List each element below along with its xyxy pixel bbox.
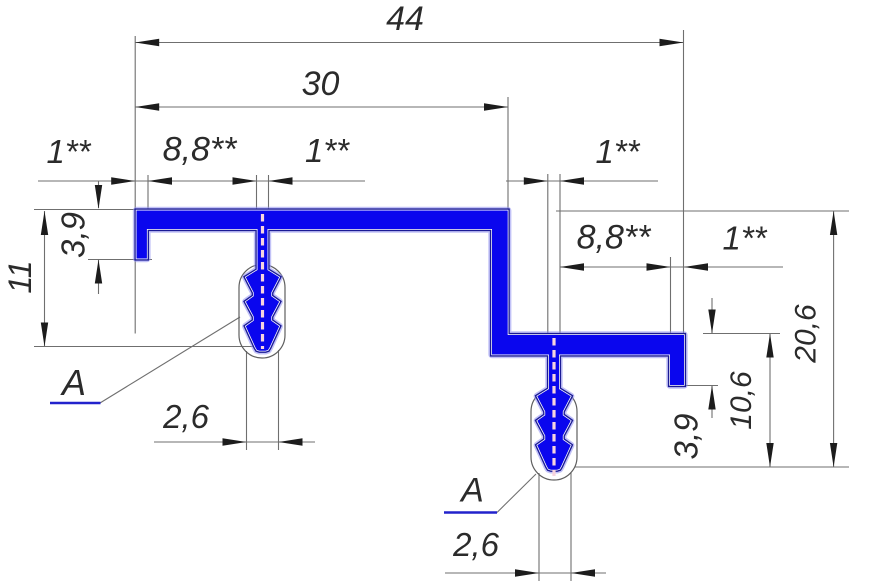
arrow 10,6 bottom <box>766 443 773 467</box>
wire: ext line x=508 for dim 30 <box>507 97 509 209</box>
arrow 8,8R left <box>560 263 584 270</box>
wire: ext lines under fir slot 1 (dim 2,6) <box>246 351 248 450</box>
arrow 2,6L a <box>223 438 247 445</box>
svg-text:2,6: 2,6 <box>452 526 500 563</box>
svg-text:10,6: 10,6 <box>725 371 758 430</box>
wire: right leg bottom ext line <box>685 385 718 387</box>
arrow 1 top-right a <box>524 177 548 184</box>
arrow 30 right <box>484 103 508 110</box>
arrow 3,9L bottom <box>95 260 102 284</box>
wire: ext lines stem1 edges <box>256 175 258 209</box>
arrow 20,6 top <box>830 211 837 235</box>
arrow 11 top <box>41 211 48 235</box>
arrow 1 top-right b <box>560 177 584 184</box>
svg-text:1**: 1** <box>305 132 350 169</box>
wire: ext line x=135 (left leg, dims 44/30/1) <box>134 36 136 209</box>
svg-text:1**: 1** <box>595 133 640 170</box>
arrow 44 left <box>135 39 159 46</box>
node slot outline 1 <box>239 265 285 359</box>
wire: lower bar top ext line right <box>703 333 780 335</box>
wire: bottom ext line of 11 <box>34 346 267 348</box>
svg-text:1**: 1** <box>46 133 91 170</box>
svg-text:3,9: 3,9 <box>668 414 705 460</box>
arrow 3,9R bottom <box>708 386 715 410</box>
arrow 1 mid outside <box>269 177 293 184</box>
arrow 3,9L top <box>95 185 102 209</box>
node A underline 1 <box>50 402 101 405</box>
node profile body <box>137 211 685 470</box>
arrow 2,6R a <box>515 569 539 576</box>
wire: top right dim line (1) <box>506 180 658 182</box>
arrow 10,6 top <box>766 334 773 358</box>
wire: dim 11 vertical <box>44 211 46 347</box>
arrow 2,6R b <box>571 569 595 576</box>
wire: bottom ext line y=464 (for 20,6 / 10,6) <box>575 466 849 468</box>
arrow 30 left <box>135 103 159 110</box>
node A underline 2 <box>444 511 497 514</box>
svg-text:1**: 1** <box>722 220 767 257</box>
arrow 44 right <box>660 39 684 46</box>
node A leader 2 <box>497 474 536 513</box>
wire: dim line 44 <box>135 42 683 44</box>
svg-text:2,6: 2,6 <box>162 398 210 435</box>
arrow 8,8L right <box>233 177 257 184</box>
svg-text:8,8**: 8,8** <box>577 219 652 257</box>
arrow 1L outside <box>111 177 135 184</box>
wire: left leg bottom ext line <box>88 259 152 261</box>
wire: top edge ext line right (for 20,6) <box>556 210 849 212</box>
node axis line tree 1 <box>261 214 264 349</box>
arrow 8,8L left <box>148 177 172 184</box>
wire: top edge ext line left <box>34 209 135 211</box>
wire: dim line 2,6 right <box>445 572 606 574</box>
wire: ext lines under fir slot 2 (dim 2,6) <box>538 473 540 581</box>
arrow 3,9R top <box>708 310 715 334</box>
wire: dim 3,9 left vertical <box>98 181 100 208</box>
node A leader 1 <box>100 317 240 403</box>
svg-text:44: 44 <box>386 0 424 38</box>
svg-text:3,9: 3,9 <box>55 212 92 258</box>
wire: dim 20,6 vertical <box>833 211 835 467</box>
arrow 2,6L b <box>279 438 303 445</box>
wire: ext lines stem2 edges <box>547 174 549 334</box>
svg-text:20,6: 20,6 <box>790 304 823 364</box>
wire: left chain dim line (1 / 8,8 / 1) <box>38 180 365 182</box>
arrow 8,8R right <box>647 263 671 270</box>
svg-text:8,8**: 8,8** <box>163 131 238 169</box>
svg-text:A: A <box>459 472 484 510</box>
wire: right chain dim line (8,8 / 1) <box>560 266 783 268</box>
arrow 11 bottom <box>41 323 48 347</box>
wire: dim line 2,6 left <box>154 441 315 443</box>
wire: dim 10,6 vertical <box>769 334 771 468</box>
node slot outline 2 <box>531 389 577 481</box>
svg-text:30: 30 <box>302 65 340 103</box>
wire: ext line x=683.5 for dim 44 <box>683 30 685 334</box>
node axis line tree 2 <box>552 338 555 476</box>
svg-text:A: A <box>60 362 86 403</box>
wire: ext line x=148 leg right edge <box>147 175 149 209</box>
arrow 1R outside <box>684 263 708 270</box>
wire: ext line x=671.5 right leg left edge <box>670 257 672 334</box>
svg-text:11: 11 <box>2 260 38 293</box>
wire: dim 3,9 right vertical <box>711 298 713 333</box>
wire: dim line 30 <box>135 106 508 108</box>
arrow 20,6 bottom <box>830 443 837 467</box>
